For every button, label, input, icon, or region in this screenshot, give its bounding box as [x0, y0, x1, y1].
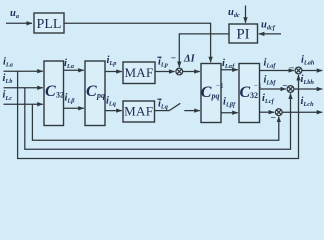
- block Cpq: [85, 61, 105, 126]
- wire i_Lp-bar from MAF to S1: [155, 71, 175, 73]
- block Cpq-inverse: [201, 64, 224, 123]
- summer S2: [295, 67, 302, 74]
- wire i_La input: [4, 70, 43, 72]
- svg-text:−: −: [171, 54, 176, 64]
- svg-text:pq: pq: [96, 91, 105, 100]
- wire i_Lq: [105, 110, 122, 112]
- block C32-inverse: [239, 64, 262, 123]
- block PLL: [34, 13, 64, 33]
- wire i_L-beta: [64, 107, 84, 109]
- svg-text:−: −: [289, 64, 294, 74]
- wire i_Lbh output: [294, 88, 323, 90]
- svg-text:32: 32: [56, 91, 64, 100]
- node i_Lq-bar label: [157, 98, 168, 110]
- switch open blade on q path: [169, 103, 180, 110]
- wire u_dcf arrow into PI: [259, 33, 281, 35]
- svg-text:C: C: [201, 84, 212, 101]
- wire i_La feedback tap to bottom bus: [18, 71, 299, 158]
- svg-text:MAF: MAF: [124, 104, 153, 119]
- block C32: [44, 61, 64, 126]
- wire PI output to summer S1: [179, 34, 229, 67]
- wire i_L-alpha: [64, 69, 84, 71]
- wire i_Lc feedback tap to top bus: [32, 104, 278, 140]
- block PI: [229, 24, 258, 43]
- svg-text:ΔI: ΔI: [183, 54, 196, 65]
- wire i_Lcf to S4: [260, 111, 275, 113]
- summer S1: [176, 68, 183, 75]
- svg-text:C: C: [45, 83, 56, 100]
- svg-text:MAF: MAF: [124, 65, 153, 80]
- wire i_L-alpha-f: [221, 69, 238, 71]
- wire i_Lb input: [4, 87, 43, 89]
- svg-text:32: 32: [250, 91, 258, 100]
- svg-text:C: C: [86, 83, 97, 100]
- wire S1 to Cpq-inverse: [183, 71, 200, 73]
- wire switch to Cpq-inverse: [184, 110, 200, 112]
- wire i_Lah output: [302, 70, 323, 72]
- wire i_Laf to S2: [260, 70, 294, 72]
- wire i_Lp: [105, 71, 122, 73]
- node i_Lp-bar label: [157, 56, 168, 68]
- wire PLL output to Cpq-inverse top: [64, 23, 211, 62]
- wire i_Lb feedback tap to middle bus: [25, 88, 291, 150]
- block MAF lower: [123, 101, 155, 122]
- wire u_a input arrow: [6, 22, 32, 24]
- wire i_Lq-bar from MAF to open switch: [155, 110, 170, 112]
- summer S4: [275, 109, 282, 116]
- svg-text:pq: pq: [211, 92, 220, 101]
- summer S3: [287, 86, 294, 93]
- wire i_Lch output: [282, 111, 322, 113]
- svg-text:−: −: [270, 114, 275, 124]
- wire i_Lc input: [4, 103, 43, 105]
- svg-text:PI: PI: [236, 27, 249, 43]
- svg-text:PLL: PLL: [37, 17, 62, 32]
- wire i_L-beta-f: [221, 112, 238, 114]
- wire i_Lbf to S3: [260, 88, 286, 90]
- svg-text:C: C: [240, 84, 251, 101]
- svg-text:−1: −1: [216, 81, 224, 90]
- block MAF upper: [123, 62, 155, 84]
- wire u_dc arrow into PI: [245, 6, 247, 23]
